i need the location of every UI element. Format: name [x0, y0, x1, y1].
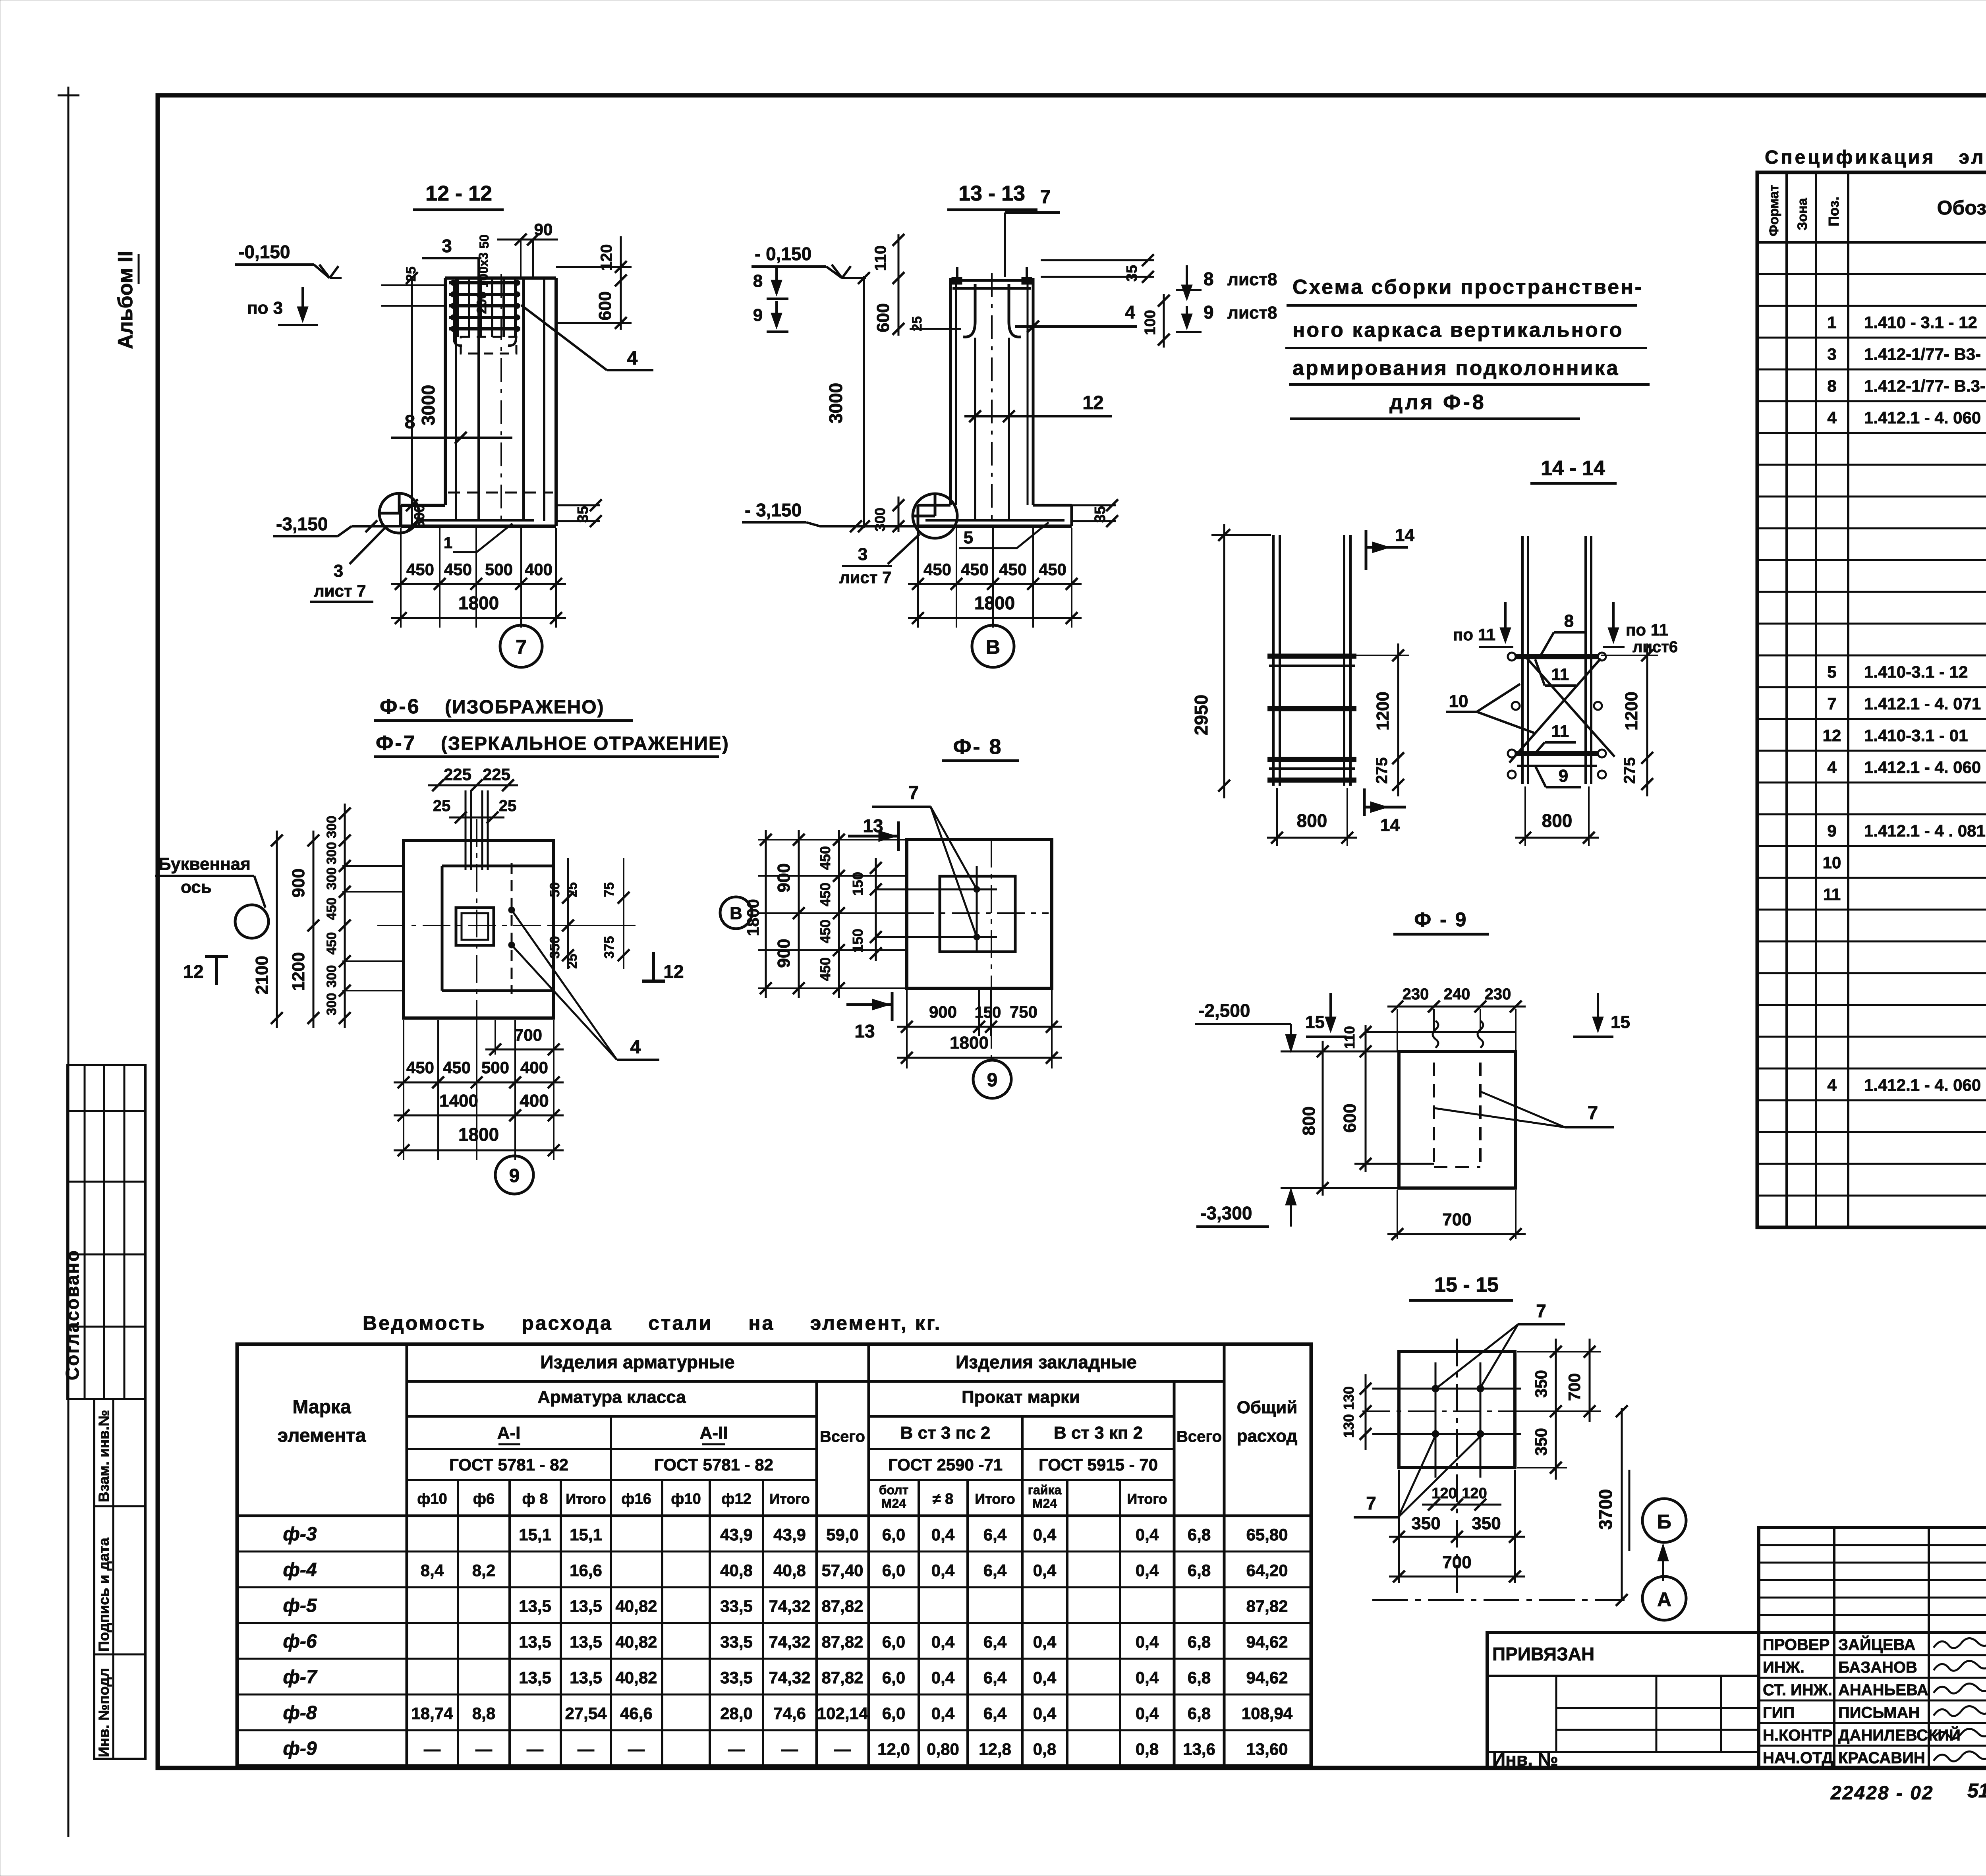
svg-text:БАЗАНОВ: БАЗАНОВ — [1838, 1659, 1917, 1676]
svg-text:74,6: 74,6 — [773, 1704, 806, 1723]
svg-text:АНАНЬЕВА: АНАНЬЕВА — [1838, 1681, 1928, 1699]
svg-text:2100: 2100 — [252, 956, 272, 995]
wire bottom extension lines (Ф-8) — [906, 990, 908, 1068]
svg-text:4: 4 — [1827, 408, 1837, 427]
svg-text:лист 7: лист 7 — [839, 568, 891, 587]
svg-text:7: 7 — [516, 636, 527, 658]
svg-text:—: — — [424, 1740, 440, 1758]
svg-text:300: 300 — [324, 816, 339, 839]
svg-text:11: 11 — [1823, 885, 1841, 904]
svg-text:0,4: 0,4 — [1033, 1525, 1057, 1544]
node section mark 14 top — [1365, 530, 1368, 570]
svg-text:0,4: 0,4 — [1033, 1668, 1057, 1687]
svg-text:6,8: 6,8 — [1188, 1668, 1211, 1687]
svg-text:ф10: ф10 — [417, 1491, 447, 1507]
svg-text:450: 450 — [999, 560, 1027, 579]
node Ф-9 body rectangle — [1399, 1051, 1516, 1188]
svg-text:6,4: 6,4 — [983, 1633, 1007, 1651]
svg-text:43,9: 43,9 — [720, 1525, 753, 1544]
node Согласовано stamp boxes — [68, 1065, 145, 1399]
svg-text:350: 350 — [1472, 1514, 1501, 1533]
svg-text:6,0: 6,0 — [882, 1633, 905, 1651]
svg-text:(ИЗОБРАЖЕНО): (ИЗОБРАЖЕНО) — [445, 697, 605, 718]
svg-text:40,8: 40,8 — [773, 1561, 806, 1580]
svg-text:0,4: 0,4 — [931, 1525, 955, 1544]
svg-text:ф16: ф16 — [621, 1491, 651, 1507]
wire bottom extension lines (Ф-6) — [403, 1020, 404, 1160]
svg-text:лист 7: лист 7 — [314, 582, 366, 600]
svg-text:1.412-1/77- В3- 020: 1.412-1/77- В3- 020 — [1864, 345, 1986, 363]
svg-text:12: 12 — [183, 961, 203, 982]
wire centerlines (Ф-8) — [861, 912, 1049, 914]
node left dim stack 300s (Ф-6) — [344, 804, 346, 1028]
svg-text:ДАНИЛЕВСКИЙ: ДАНИЛЕВСКИЙ — [1838, 1726, 1961, 1744]
svg-text:40,8: 40,8 — [720, 1561, 753, 1580]
svg-text:ось: ось — [181, 877, 212, 897]
svg-text:лист6: лист6 — [1632, 638, 1678, 656]
svg-text:Итого: Итого — [975, 1491, 1015, 1507]
svg-text:275: 275 — [1621, 757, 1638, 784]
svg-text:9: 9 — [1559, 766, 1568, 786]
svg-text:0,4: 0,4 — [1136, 1525, 1159, 1544]
svg-text:1.412.1 - 4. 071: 1.412.1 - 4. 071 — [1864, 694, 1981, 713]
svg-text:35: 35 — [1124, 265, 1140, 282]
svg-text:3700: 3700 — [1595, 1489, 1616, 1530]
svg-text:В: В — [730, 904, 742, 923]
svg-text:0,8: 0,8 — [1136, 1740, 1159, 1758]
svg-text:1800: 1800 — [458, 593, 499, 613]
svg-text:46,6: 46,6 — [620, 1704, 653, 1723]
node footing 13-13 — [918, 525, 1072, 528]
wire anchor bolt lines (Ф-6) — [465, 790, 467, 870]
svg-text:13,5: 13,5 — [519, 1597, 551, 1615]
node axis circle 9 (Ф-8) — [973, 1060, 1011, 1098]
svg-text:700: 700 — [514, 1026, 542, 1044]
svg-text:240: 240 — [1444, 985, 1470, 1003]
svg-text:12: 12 — [1082, 392, 1103, 413]
node cage top rung — [1515, 654, 1598, 659]
svg-text:НАЧ.ОТД: НАЧ.ОТД — [1763, 1749, 1833, 1767]
svg-text:ф6: ф6 — [473, 1491, 495, 1507]
svg-text:9: 9 — [1204, 302, 1214, 323]
svg-text:57,40: 57,40 — [821, 1561, 863, 1580]
svg-text:4: 4 — [1827, 758, 1837, 777]
svg-text:8: 8 — [405, 412, 415, 433]
svg-text:225: 225 — [444, 765, 471, 784]
svg-text:6,0: 6,0 — [882, 1704, 905, 1723]
svg-text:армирования подколонника: армирования подколонника — [1292, 357, 1619, 380]
svg-text:7: 7 — [1536, 1300, 1546, 1321]
svg-text:Подпись и дата: Подпись и дата — [96, 1538, 112, 1652]
svg-text:108,94: 108,94 — [1242, 1704, 1293, 1723]
svg-text:13,5: 13,5 — [519, 1633, 551, 1651]
svg-text:400: 400 — [525, 560, 553, 579]
svg-text:700: 700 — [1565, 1373, 1584, 1401]
svg-text:43,9: 43,9 — [773, 1525, 806, 1544]
node dim chain 450 450 500 400 (Ф-6) — [394, 1082, 564, 1084]
node axis circle Б — [1642, 1499, 1686, 1542]
svg-text:130: 130 — [1341, 1386, 1357, 1410]
svg-text:11: 11 — [1551, 665, 1569, 684]
svg-text:лист8: лист8 — [1227, 303, 1277, 323]
node cage rails — [1521, 536, 1524, 784]
svg-text:110: 110 — [872, 245, 889, 271]
svg-text:15: 15 — [1305, 1012, 1325, 1032]
svg-text:Всего: Всего — [820, 1428, 865, 1445]
node 8 лист8 callout — [1186, 265, 1188, 298]
svg-text:ф12: ф12 — [721, 1491, 752, 1507]
svg-text:ИНЖ.: ИНЖ. — [1763, 1659, 1804, 1676]
svg-text:27,54: 27,54 — [565, 1704, 607, 1723]
svg-text:болт: болт — [879, 1483, 909, 1497]
svg-text:Спецификация элементов мон: Спецификация элементов монолитных фундам… — [1765, 147, 1986, 168]
svg-text:ЗАЙЦЕВА: ЗАЙЦЕВА — [1838, 1635, 1915, 1654]
svg-text:13,5: 13,5 — [519, 1668, 551, 1687]
svg-text:Общий: Общий — [1237, 1398, 1298, 1417]
svg-text:350: 350 — [1532, 1370, 1550, 1398]
svg-text:120: 120 — [1462, 1485, 1487, 1502]
svg-text:1200: 1200 — [1373, 692, 1393, 730]
node Ф-9 hidden pocket dashed — [1433, 1063, 1435, 1167]
svg-text:75: 75 — [602, 882, 617, 897]
svg-text:450: 450 — [817, 957, 833, 981]
node detail circle (13-13 footing) — [913, 494, 957, 538]
svg-text:450: 450 — [406, 1058, 434, 1077]
svg-text:130: 130 — [1341, 1414, 1357, 1438]
svg-text:—: — — [834, 1740, 851, 1758]
svg-text:В ст 3 кп 2: В ст 3 кп 2 — [1054, 1423, 1143, 1443]
svg-text:300: 300 — [324, 867, 339, 890]
svg-text:33,5: 33,5 — [720, 1668, 753, 1687]
svg-text:3: 3 — [858, 545, 867, 564]
node title block привязан box — [1487, 1633, 1759, 1768]
svg-text:6,8: 6,8 — [1188, 1704, 1211, 1723]
svg-text:6,0: 6,0 — [882, 1561, 905, 1580]
node dim 1800 (Ф-6) — [394, 1150, 564, 1151]
svg-text:А-II: А-II — [700, 1423, 728, 1443]
svg-text:28,0: 28,0 — [720, 1704, 753, 1723]
svg-text:Инв. №: Инв. № — [1492, 1749, 1558, 1770]
svg-text:0,4: 0,4 — [931, 1633, 955, 1651]
svg-text:110: 110 — [1341, 1026, 1358, 1049]
node axis circle В (Ф-8) — [720, 897, 752, 929]
svg-text:14: 14 — [1395, 526, 1414, 545]
svg-text:Всего: Всего — [1177, 1428, 1222, 1445]
svg-text:15: 15 — [1611, 1012, 1630, 1032]
svg-text:13: 13 — [854, 1021, 875, 1041]
svg-text:1.410-3.1 - 12: 1.410-3.1 - 12 — [1864, 663, 1968, 681]
svg-text:Итого: Итого — [769, 1491, 810, 1507]
svg-text:9: 9 — [509, 1165, 520, 1186]
svg-text:4: 4 — [627, 348, 638, 369]
wire left extension lines (Ф-8) — [758, 839, 907, 840]
svg-text:Альбом II: Альбом II — [114, 251, 137, 349]
wire left extension lines (Ф-6) — [342, 865, 404, 867]
svg-text:50: 50 — [477, 234, 491, 249]
svg-text:6,4: 6,4 — [983, 1668, 1007, 1687]
svg-text:94,62: 94,62 — [1246, 1668, 1288, 1687]
svg-text:расход: расход — [1237, 1426, 1298, 1446]
svg-text:9: 9 — [987, 1070, 998, 1091]
svg-text:33,5: 33,5 — [720, 1633, 753, 1651]
svg-text:7: 7 — [1827, 694, 1836, 713]
svg-text:ф-5: ф-5 — [283, 1595, 317, 1616]
svg-text:0,4: 0,4 — [1033, 1633, 1057, 1651]
wire rebar verticals (13-13) — [974, 338, 976, 521]
svg-text:120: 120 — [1432, 1485, 1457, 1502]
node column 12-12 outline — [444, 278, 447, 505]
svg-text:74,32: 74,32 — [769, 1633, 810, 1651]
svg-text:3: 3 — [442, 236, 452, 256]
node letter axis circle (Ф-6) — [235, 905, 269, 938]
svg-text:12: 12 — [663, 961, 684, 982]
node Ф-8 outer square — [907, 840, 1052, 988]
svg-text:33,5: 33,5 — [720, 1597, 753, 1615]
svg-text:Формат: Формат — [1766, 185, 1781, 236]
svg-text:Согласовано: Согласовано — [62, 1249, 83, 1380]
svg-text:350: 350 — [1532, 1428, 1550, 1456]
svg-text:300: 300 — [324, 842, 339, 865]
svg-text:по 3: по 3 — [247, 298, 283, 318]
svg-text:900: 900 — [774, 939, 794, 968]
svg-text:1.412.1 - 4. 060: 1.412.1 - 4. 060 — [1864, 1076, 1981, 1094]
svg-text:3: 3 — [334, 561, 343, 581]
svg-text:Обозначение: Обозначение — [1937, 197, 1986, 219]
svg-text:4: 4 — [1125, 302, 1135, 323]
svg-text:Буквенная: Буквенная — [158, 854, 251, 874]
svg-text:ГИП: ГИП — [1763, 1704, 1795, 1721]
svg-text:7: 7 — [908, 782, 919, 804]
node Ф-6 podkolonnik anchor box — [456, 908, 494, 945]
svg-text:12: 12 — [1823, 726, 1841, 745]
node dims 1200 275 between ladder and cage — [1397, 643, 1399, 796]
svg-text:8: 8 — [1204, 269, 1214, 289]
svg-text:1: 1 — [444, 534, 452, 552]
svg-text:Ф- 8: Ф- 8 — [953, 735, 1003, 759]
svg-text:300: 300 — [324, 965, 339, 988]
svg-text:Схема сборки пространствен-: Схема сборки пространствен- — [1292, 276, 1643, 299]
svg-text:СТ. ИНЖ.: СТ. ИНЖ. — [1763, 1681, 1832, 1699]
svg-text:230: 230 — [1485, 985, 1511, 1003]
svg-text:9: 9 — [1827, 821, 1836, 840]
svg-text:150: 150 — [850, 929, 866, 952]
svg-text:8: 8 — [753, 271, 763, 291]
svg-text:1200: 1200 — [1622, 692, 1641, 730]
svg-text:100: 100 — [1142, 310, 1159, 335]
svg-text:800: 800 — [1299, 1106, 1319, 1135]
node anchor dots and label 4 (Ф-6) — [508, 907, 515, 913]
node dim 450x4 (Ф-8 left) — [838, 830, 840, 998]
svg-text:59,0: 59,0 — [826, 1525, 859, 1544]
node dim 1800 (Ф-8 left) — [765, 830, 767, 998]
svg-text:450: 450 — [817, 920, 833, 943]
svg-text:ф-7: ф-7 — [283, 1667, 317, 1688]
node arrow between А and Б — [1662, 1545, 1664, 1581]
svg-text:А: А — [1657, 1588, 1671, 1611]
svg-text:450: 450 — [923, 560, 951, 579]
node cage mid circles — [1512, 702, 1520, 710]
svg-text:0,8: 0,8 — [1033, 1740, 1056, 1758]
svg-text:5: 5 — [964, 528, 973, 547]
node cage X bracing — [1509, 659, 1601, 763]
node section mark 14 bottom — [1363, 788, 1366, 816]
wire centerlines (Ф-6) — [377, 925, 568, 926]
svg-text:-0,150: -0,150 — [238, 242, 290, 262]
svg-text:22428 - 02: 22428 - 02 — [1830, 1783, 1934, 1804]
node grid lines and dots (15-15) — [1372, 1388, 1521, 1390]
node column 13-13 outline — [949, 278, 952, 505]
node dim 2100 (Ф-6 left) — [276, 831, 278, 1028]
svg-text:1800: 1800 — [974, 593, 1015, 613]
svg-text:87,82: 87,82 — [1246, 1597, 1288, 1615]
svg-text:0,4: 0,4 — [1033, 1704, 1057, 1723]
svg-text:гайка: гайка — [1028, 1483, 1062, 1497]
svg-text:400: 400 — [520, 1058, 548, 1077]
svg-text:74,32: 74,32 — [769, 1668, 810, 1687]
svg-text:450: 450 — [324, 898, 339, 920]
node label 4 with leader (12-12) — [521, 305, 607, 370]
svg-text:87,82: 87,82 — [821, 1597, 863, 1615]
svg-text:450: 450 — [817, 883, 833, 906]
svg-text:8,2: 8,2 — [472, 1561, 495, 1580]
svg-text:ГОСТ 5781 - 82: ГОСТ 5781 - 82 — [449, 1455, 568, 1474]
svg-text:300: 300 — [324, 993, 339, 1016]
svg-text:ф-3: ф-3 — [283, 1524, 317, 1545]
svg-text:25: 25 — [910, 316, 925, 331]
svg-text:Ф - 9: Ф - 9 — [1414, 908, 1468, 931]
node cut line with breaks (Ф-9) — [1366, 1031, 1516, 1033]
svg-text:600: 600 — [873, 303, 893, 332]
node Ф-6 middle step — [442, 865, 554, 867]
node dim 800 (cage) — [1524, 786, 1526, 846]
svg-text:6,8: 6,8 — [1188, 1525, 1211, 1544]
svg-text:0,4: 0,4 — [1136, 1704, 1159, 1723]
svg-text:Арматура класса: Арматура класса — [537, 1387, 686, 1407]
svg-text:1.412.1 - 4. 060: 1.412.1 - 4. 060 — [1864, 758, 1981, 777]
node dim chain 450 450 500 400 (12-12) — [391, 583, 566, 585]
svg-text:В: В — [986, 636, 1000, 658]
svg-text:87,82: 87,82 — [821, 1633, 863, 1651]
svg-text:450: 450 — [324, 932, 339, 955]
svg-text:800: 800 — [1297, 810, 1327, 831]
svg-text:14: 14 — [1380, 815, 1400, 835]
svg-text:13,5: 13,5 — [570, 1597, 602, 1615]
svg-text:Взам. инв.№: Взам. инв.№ — [96, 1410, 112, 1503]
svg-text:64,20: 64,20 — [1246, 1561, 1288, 1580]
svg-text:1.412.1 - 4 . 081: 1.412.1 - 4 . 081 — [1864, 821, 1986, 840]
node dim 900 1200 (Ф-6 left) — [313, 831, 315, 1028]
svg-text:ф-6: ф-6 — [283, 1631, 317, 1652]
svg-text:40,82: 40,82 — [615, 1597, 657, 1615]
svg-text:700: 700 — [1442, 1553, 1471, 1572]
svg-text:В ст 3 пс 2: В ст 3 пс 2 — [900, 1423, 991, 1443]
node Взам. инв. № box — [94, 1399, 145, 1759]
svg-text:8: 8 — [1564, 611, 1574, 631]
svg-text:102,14: 102,14 — [817, 1704, 868, 1723]
svg-text:ПРИВЯЗАН: ПРИВЯЗАН — [1492, 1644, 1594, 1664]
node steel table grid — [237, 1344, 1311, 1766]
svg-text:КРАСАВИН: КРАСАВИН — [1838, 1749, 1925, 1767]
node lines through anchor dots (Ф-8) — [876, 889, 997, 891]
svg-text:600: 600 — [1340, 1103, 1360, 1132]
svg-text:Ф-6: Ф-6 — [380, 695, 421, 718]
svg-text:Зона: Зона — [1795, 197, 1810, 230]
svg-text:2950: 2950 — [1191, 695, 1211, 735]
svg-text:Б: Б — [1657, 1511, 1671, 1533]
node detail circle (12-12 footing) — [379, 493, 419, 533]
svg-text:0,4: 0,4 — [1033, 1561, 1057, 1580]
svg-text:13,5: 13,5 — [570, 1668, 602, 1687]
node ladder rungs (14-14) — [1267, 654, 1356, 659]
svg-text:13,60: 13,60 — [1246, 1740, 1288, 1758]
svg-text:7: 7 — [1040, 187, 1051, 208]
svg-text:0,4: 0,4 — [1136, 1633, 1159, 1651]
svg-text:10: 10 — [1449, 692, 1468, 711]
svg-text:4: 4 — [630, 1037, 641, 1058]
svg-text:для Ф-8: для Ф-8 — [1389, 391, 1486, 414]
svg-text:450: 450 — [961, 560, 989, 579]
node dims 350 350 700 (15-15 right) — [1555, 1339, 1557, 1480]
node rebar hooks (13-13) — [963, 284, 975, 337]
svg-text:1800: 1800 — [458, 1124, 499, 1145]
svg-text:1800: 1800 — [950, 1033, 989, 1053]
svg-text:14 - 14: 14 - 14 — [1541, 457, 1605, 480]
svg-text:Изделия арматурные: Изделия арматурные — [540, 1352, 734, 1372]
svg-text:12,8: 12,8 — [979, 1740, 1011, 1758]
svg-text:8: 8 — [1827, 377, 1836, 395]
wire extension lines bottom 13-13 — [917, 528, 919, 628]
svg-text:Ф-7: Ф-7 — [376, 732, 417, 755]
node axis circle В (13-13) — [992, 618, 994, 625]
svg-text:1400: 1400 — [439, 1091, 478, 1111]
node axis circle 7 (12-12) — [520, 618, 522, 625]
node title block signatures — [1934, 1638, 1986, 1648]
svg-text:1: 1 — [1827, 313, 1836, 332]
svg-text:40,82: 40,82 — [615, 1668, 657, 1687]
node 9 лист8 callout — [1186, 306, 1188, 327]
node dim 1400 400 (Ф-6) — [394, 1115, 564, 1117]
node dim 700 (Ф-9 bottom) — [1397, 1190, 1398, 1239]
svg-text:700: 700 — [1442, 1210, 1471, 1229]
node label 3 лист 7 (13-13) — [888, 534, 920, 564]
node label 3 лист 7 (12-12) — [350, 528, 384, 564]
svg-text:—: — — [475, 1740, 492, 1758]
svg-text:Ведомость расхода стал: Ведомость расхода стали на элемент, кг. — [363, 1312, 942, 1334]
svg-text:1200: 1200 — [289, 952, 308, 991]
svg-text:1.412.1 - 4. 060: 1.412.1 - 4. 060 — [1864, 408, 1981, 427]
svg-text:Итого: Итого — [1127, 1491, 1167, 1507]
svg-text:11: 11 — [1551, 722, 1569, 740]
svg-text:400: 400 — [520, 1091, 549, 1111]
svg-text:275: 275 — [1373, 757, 1391, 784]
svg-text:—: — — [728, 1740, 745, 1758]
svg-text:6,4: 6,4 — [983, 1525, 1007, 1544]
svg-text:8,8: 8,8 — [472, 1704, 495, 1723]
svg-text:- 0,150: - 0,150 — [755, 243, 811, 264]
node dim 800 (14-14) — [1276, 788, 1278, 846]
svg-text:-3,150: -3,150 — [276, 514, 328, 534]
svg-text:ф 8: ф 8 — [522, 1491, 548, 1507]
svg-text:ПРОВЕР: ПРОВЕР — [1763, 1636, 1830, 1654]
svg-text:0,4: 0,4 — [931, 1668, 955, 1687]
svg-text:ного каркаса вертикального: ного каркаса вертикального — [1292, 319, 1624, 342]
svg-text:6,4: 6,4 — [983, 1704, 1007, 1723]
svg-text:ф10: ф10 — [671, 1491, 701, 1507]
svg-text:25: 25 — [499, 797, 517, 815]
svg-text:6,0: 6,0 — [882, 1525, 905, 1544]
svg-text:Инв. №подл: Инв. №подл — [96, 1668, 112, 1757]
node specification table grid — [1757, 172, 1986, 1227]
